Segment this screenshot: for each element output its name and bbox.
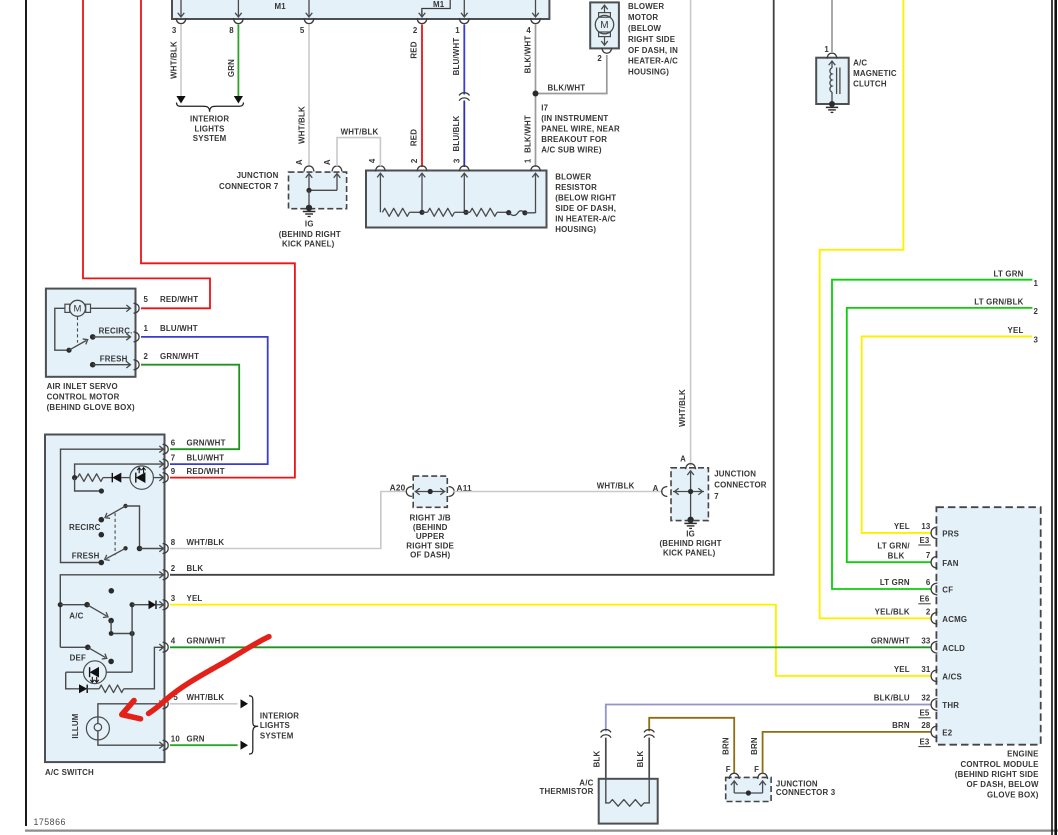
servo wire motor to common (55, 308, 69, 350)
svg-text:A/C SUB WIRE): A/C SUB WIRE) (541, 145, 602, 154)
M1 pin 4 terminal (531, 18, 541, 24)
svg-text:CONNECTOR 7: CONNECTOR 7 (219, 182, 279, 191)
diode D pin3 (149, 600, 157, 609)
svg-text:KICK PANEL): KICK PANEL) (282, 239, 335, 248)
M1 pin 2 terminal (417, 18, 427, 24)
svg-text:CLUTCH: CLUTCH (853, 80, 887, 89)
ground IG upper dot (306, 205, 312, 211)
svg-text:6: 6 (171, 439, 176, 448)
servo motor brush left (65, 304, 70, 312)
clutch ground (826, 106, 838, 108)
svg-text:28: 28 (921, 721, 931, 730)
svg-text:10: 10 (171, 735, 181, 744)
svg-text:CF: CF (942, 586, 953, 595)
svg-text:32: 32 (921, 694, 931, 703)
svg-text:RECIRC: RECIRC (69, 523, 101, 532)
servo pin 5 terminal (134, 303, 140, 313)
wire YEL to ECM PRS (862, 337, 1033, 533)
servo switch arm (69, 341, 86, 351)
svg-text:E2: E2 (942, 729, 952, 738)
right J/B terminal A20 (406, 487, 412, 497)
svg-text:CONNECTOR: CONNECTOR (714, 481, 767, 490)
svg-text:GRN/WHT: GRN/WHT (187, 637, 226, 646)
A/C switch pin 2 arrow (159, 572, 163, 579)
A/C magnetic clutch box (816, 58, 849, 104)
svg-text:E3: E3 (919, 737, 929, 746)
svg-text:F: F (754, 765, 759, 774)
svg-text:IG: IG (305, 220, 314, 229)
servo common pivot dot (66, 348, 71, 353)
svg-text:(BEHIND RIGHT: (BEHIND RIGHT (279, 230, 341, 239)
wire YEL/BLK feed to ECM ACMG (820, 0, 932, 618)
svg-text:BLK: BLK (593, 750, 602, 767)
JC7 upper pin A right arrow (334, 174, 341, 178)
ECM pin 33 ACLD terminal (931, 641, 937, 653)
svg-text:THERMISTOR: THERMISTOR (539, 787, 593, 796)
blower resistor pin 4 terminal (375, 166, 385, 172)
svg-text:UPPER: UPPER (416, 532, 445, 541)
svg-text:GRN/WHT: GRN/WHT (160, 352, 199, 361)
ac contact link (111, 621, 132, 634)
splice thermistor right (644, 730, 654, 733)
svg-text:JUNCTION: JUNCTION (714, 470, 756, 479)
illum lamp wire pin5 (98, 704, 163, 724)
svg-text:2: 2 (144, 352, 149, 361)
svg-text:2: 2 (410, 158, 419, 163)
svg-text:31: 31 (921, 665, 931, 674)
node lamp feed dot (72, 475, 77, 480)
right J/B terminal A11 (449, 487, 455, 497)
svg-text:LT GRN: LT GRN (994, 269, 1024, 278)
right J/B internal bus (415, 491, 446, 493)
svg-text:E5: E5 (919, 709, 929, 718)
A/C switch pin 4 arrow (159, 644, 163, 651)
svg-text:OF DASH): OF DASH) (410, 551, 450, 560)
svg-text:BLK/WHT: BLK/WHT (523, 115, 532, 153)
svg-text:HOUSING): HOUSING) (628, 68, 669, 77)
svg-text:OF DASH, BELOW: OF DASH, BELOW (967, 780, 1039, 789)
svg-text:JUNCTION: JUNCTION (237, 171, 279, 180)
LED pin9 light arrows (138, 468, 140, 473)
svg-text:BLOWER: BLOWER (628, 2, 664, 11)
wire WHT/BLK pin8 to A20 (170, 492, 407, 549)
svg-text:7: 7 (171, 453, 176, 462)
svg-text:2: 2 (171, 564, 176, 573)
svg-text:ILLUM: ILLUM (71, 713, 80, 738)
svg-text:IG: IG (686, 529, 695, 538)
wire BLU/WHT servo 1 to A/C switch 7 (141, 337, 268, 464)
svg-text:BLU/BLK: BLU/BLK (452, 115, 461, 151)
svg-text:5: 5 (144, 295, 149, 304)
wire GRN pin10 to interior lights (170, 744, 238, 746)
svg-text:BRN: BRN (722, 737, 731, 755)
svg-text:SYSTEM: SYSTEM (260, 732, 294, 741)
svg-text:RIGHT SIDE: RIGHT SIDE (628, 35, 675, 44)
svg-text:(BEHIND: (BEHIND (413, 523, 448, 532)
def switch arm (88, 647, 106, 657)
svg-text:A/C: A/C (853, 59, 867, 68)
node I7 junction dot (533, 91, 539, 97)
svg-text:BLK/WHT: BLK/WHT (548, 83, 586, 92)
svg-text:2: 2 (597, 54, 602, 63)
thermal fuse dot right (522, 210, 527, 215)
servo motor brush right (86, 304, 91, 312)
svg-text:BRN: BRN (750, 737, 759, 755)
wire YEL pin3 to ECM A/CS (170, 605, 932, 676)
svg-text:(BELOW RIGHT: (BELOW RIGHT (555, 193, 616, 202)
wire GRN M1-8 to interior lights (237, 25, 239, 97)
A/C switch pin 10 arrow (159, 742, 163, 749)
wire BLK thermistor right (648, 738, 650, 779)
svg-text:LT GRN/: LT GRN/ (877, 542, 910, 551)
wire BRN thermistor to JC3 F (649, 718, 734, 774)
servo pin 1 arrow (126, 334, 130, 341)
svg-text:BLOWER: BLOWER (555, 172, 591, 181)
svg-text:CONTROL MOTOR: CONTROL MOTOR (47, 392, 120, 401)
recirc switch pivot (123, 504, 127, 508)
svg-text:LIGHTS: LIGHTS (195, 124, 225, 133)
wire WHT/BLK A11 to JC7 (453, 491, 663, 493)
wire LT GRN/BLK to ECM FAN (847, 308, 1033, 562)
svg-text:HOUSING): HOUSING) (555, 225, 596, 234)
svg-text:RED: RED (410, 129, 419, 146)
ac off contact dot (109, 588, 115, 594)
A/C switch pin 9 arrow (159, 474, 163, 481)
svg-text:4: 4 (171, 637, 176, 646)
thermal fuse dot left (506, 210, 511, 215)
wire BLU/BLK to blower resistor 3 (463, 101, 465, 168)
wire BRN JC3 to ECM E2 (763, 732, 932, 773)
A/C switch pin 8 terminal (163, 544, 169, 554)
svg-text:(BEHIND RIGHT: (BEHIND RIGHT (659, 539, 721, 548)
svg-text:M1: M1 (275, 2, 287, 11)
svg-text:BLK/BLU: BLK/BLU (874, 694, 910, 703)
svg-text:BREAKOUT FOR: BREAKOUT FOR (541, 135, 607, 144)
blower resistor pin 2 arrow (419, 173, 426, 177)
blower resistor pin 1 arrow (532, 173, 539, 177)
svg-text:1: 1 (455, 26, 460, 35)
wire WHT/BLK M1-3 to interior lights (180, 25, 182, 97)
svg-text:GLOVE BOX): GLOVE BOX) (987, 790, 1039, 799)
svg-text:A: A (653, 484, 659, 493)
wire def loop to pin4 (124, 647, 163, 689)
brace interior lights system bottom (249, 696, 258, 754)
svg-text:BLK: BLK (636, 750, 645, 767)
svg-text:LT GRN: LT GRN (880, 578, 910, 587)
JC7 right pin A terminal (662, 487, 668, 497)
wire to pin 8 (140, 548, 163, 550)
annotation red arrow (149, 637, 270, 714)
recirc switch arm (107, 506, 126, 517)
ac switch feed (60, 604, 87, 606)
svg-text:HEATER-A/C: HEATER-A/C (628, 57, 678, 66)
wire WHT/BLK M1-5 to junction connector 7 (308, 25, 310, 167)
splice thermistor left (601, 730, 611, 733)
svg-text:AIR INLET SERVO: AIR INLET SERVO (47, 382, 118, 391)
blower motor brush bottom (599, 32, 611, 37)
svg-text:5: 5 (300, 26, 305, 35)
JC3 pin F right arrow (759, 781, 766, 785)
junction connector 7 right box (671, 468, 708, 521)
svg-text:LT GRN/BLK: LT GRN/BLK (974, 298, 1023, 307)
servo mechanical link dashed (77, 317, 79, 343)
ECM pin 28 E2 terminal (931, 726, 937, 738)
wire BLK thermistor left (605, 738, 607, 779)
wire BLK/WHT blower motor to node I7 (539, 55, 607, 94)
svg-text:YEL: YEL (894, 665, 910, 674)
svg-text:RIGHT SIDE: RIGHT SIDE (406, 541, 454, 550)
off contact dot recirc (99, 532, 105, 538)
svg-text:(BELOW: (BELOW (628, 24, 662, 33)
svg-text:WHT/BLK: WHT/BLK (597, 482, 635, 491)
svg-text:A/CS: A/CS (942, 673, 962, 682)
JC3 internal bus (734, 792, 762, 794)
servo pin 2 terminal (134, 360, 140, 370)
svg-text:3: 3 (171, 594, 176, 603)
wire GRN/WHT servo 2 to A/C switch 6 (141, 365, 239, 450)
clutch ground dot (829, 101, 835, 107)
svg-text:9: 9 (171, 467, 176, 476)
blower motor arrow down (604, 36, 606, 44)
svg-text:CONTROL MODULE: CONTROL MODULE (961, 760, 1039, 769)
wire BLK/BLU thermistor to ECM THR (606, 705, 932, 732)
def switch feed (60, 646, 88, 648)
junction block M1 (172, 0, 549, 19)
wire to diode pin3 (132, 604, 148, 606)
ac contact dot (108, 618, 114, 624)
clutch coil L1 (830, 68, 832, 92)
svg-text:A: A (680, 455, 686, 464)
svg-text:7: 7 (714, 492, 719, 501)
svg-text:RED: RED (410, 41, 419, 58)
svg-text:A: A (323, 159, 332, 165)
ECM pin 7 FAN terminal (931, 556, 937, 568)
A/C switch pin 7 arrow (159, 461, 163, 468)
A/C switch pin 5 arrow (159, 701, 163, 708)
svg-text:RECIRC.: RECIRC. (99, 327, 133, 336)
clutch arrow up (831, 62, 833, 68)
ground IG right (684, 522, 696, 524)
servo RECIRC contact (90, 334, 96, 340)
def switch pivot (85, 645, 91, 651)
svg-text:8: 8 (171, 538, 176, 547)
servo pin 2 arrow (126, 361, 130, 368)
svg-text:7: 7 (926, 551, 931, 560)
svg-text:M: M (600, 20, 609, 31)
blower resistor pin 3 terminal (459, 166, 469, 172)
svg-text:3: 3 (172, 26, 177, 35)
svg-text:FAN: FAN (942, 559, 958, 568)
M1 pin 5 arrow (308, 0, 310, 17)
svg-text:THR: THR (942, 701, 959, 710)
blower motor armature M (595, 15, 613, 33)
ground IG upper (303, 211, 316, 213)
svg-text:2: 2 (926, 607, 931, 616)
blower resistor pin 4 arrow (377, 173, 384, 177)
svg-text:RESISTOR: RESISTOR (555, 183, 597, 192)
svg-text:M: M (73, 304, 81, 315)
svg-text:175866: 175866 (34, 817, 66, 827)
M1 pin 1 terminal (459, 18, 469, 24)
junction connector 3 box (726, 777, 771, 801)
thermistor element (606, 779, 610, 803)
servo pin 5 arrow (126, 305, 130, 312)
svg-text:YEL: YEL (1008, 326, 1024, 335)
A/C switch pin 3 arrow (159, 601, 163, 608)
blower resistor element R2 (422, 211, 428, 213)
svg-text:IN HEATER-A/C: IN HEATER-A/C (555, 214, 616, 223)
servo pin 1 terminal (134, 332, 140, 342)
wire BLU/WHT M1-1 upper (463, 25, 465, 95)
blower motor arrow up (604, 6, 606, 13)
A/C switch pin 6 terminal (163, 444, 169, 454)
A/C switch pin 2 terminal (163, 570, 169, 580)
svg-text:E6: E6 (919, 595, 929, 604)
JC7 upper ground lead (308, 190, 310, 208)
connector M1 label leader (422, 0, 450, 17)
M1 pin 2 arrow (421, 11, 423, 17)
servo FRESH contact (90, 362, 96, 368)
svg-text:F: F (726, 765, 731, 774)
JC7 upper pin A left arrow (306, 174, 313, 178)
JC7 upper internal bus (309, 189, 337, 191)
JC3 pin F left terminal (729, 773, 739, 779)
svg-text:BLU/WHT: BLU/WHT (452, 38, 461, 76)
fresh contact dot (99, 560, 105, 566)
resistor R lamp (78, 474, 104, 482)
svg-text:BLU/WHT: BLU/WHT (160, 324, 198, 333)
svg-text:RED/WHT: RED/WHT (160, 295, 198, 304)
svg-text:INTERIOR: INTERIOR (190, 115, 229, 124)
wire RED M1-2 to blower resistor 2 (421, 25, 423, 168)
blower resistor box (366, 171, 547, 228)
svg-text:CONNECTOR 3: CONNECTOR 3 (776, 788, 836, 797)
svg-text:DEF: DEF (70, 653, 86, 662)
blower motor pin 2 terminal (602, 48, 612, 54)
node pin8 junction (137, 546, 143, 552)
svg-text:RED/WHT: RED/WHT (187, 467, 225, 476)
JC7 right internal cross (690, 471, 692, 520)
svg-text:GRN: GRN (227, 59, 236, 77)
svg-text:WHT/BLK: WHT/BLK (187, 693, 225, 702)
svg-text:1: 1 (523, 158, 532, 163)
svg-text:6: 6 (926, 578, 931, 587)
wire RED/WHT feed to A/C switch pin 9 (141, 0, 295, 478)
svg-text:BLK: BLK (187, 564, 204, 573)
svg-text:3: 3 (452, 158, 461, 163)
svg-text:YEL: YEL (894, 522, 910, 531)
svg-text:2: 2 (1034, 307, 1039, 316)
A/C switch pin 3 terminal (163, 600, 169, 610)
blower motor M1 box (590, 2, 619, 48)
svg-text:SYSTEM: SYSTEM (193, 134, 227, 143)
def lamp loop (66, 672, 71, 689)
ground IG right dot (687, 517, 693, 523)
svg-text:KICK PANEL): KICK PANEL) (663, 549, 716, 558)
A/C switch wire pin6 to FRESH contact (61, 449, 163, 562)
svg-text:A: A (295, 159, 304, 165)
ac switch pivot (84, 602, 90, 608)
A/C switch wire pin7 to lamp circuit (75, 464, 163, 478)
A/C thermistor box (599, 779, 658, 824)
wire WHT/BLK pin5 to interior lights (170, 703, 238, 705)
JC7 upper pin A right terminal (332, 166, 342, 172)
mechanical link recirc-fresh (114, 513, 116, 555)
fresh switch arm (106, 548, 125, 558)
ECM pin 2 ACMG terminal (931, 612, 937, 624)
wire WHT/BLK feed from top (690, 0, 692, 466)
svg-text:A/C: A/C (579, 778, 593, 787)
svg-text:BRN: BRN (892, 721, 910, 730)
svg-text:I7: I7 (541, 103, 548, 112)
blower motor brush top (599, 13, 611, 18)
A/C switch pin 5 terminal (163, 699, 169, 709)
wire RED/WHT feed to servo pin 5 (83, 0, 210, 308)
svg-text:1: 1 (824, 45, 829, 54)
wire WHT/BLK JC7 to blower resistor 4 (337, 138, 380, 167)
A/C switch pin 8 arrow (159, 545, 163, 552)
wire BLK pin2 (170, 0, 774, 575)
resistor R def (99, 685, 124, 693)
A/C switch pin 7 terminal (163, 459, 169, 469)
air inlet servo control motor box (46, 289, 136, 377)
wire pin2 feed (60, 575, 162, 648)
A/C switch pin 4 terminal (163, 642, 169, 652)
svg-text:OF DASH, IN: OF DASH, IN (628, 46, 678, 55)
diode D lamp (103, 477, 112, 479)
svg-text:RIGHT J/B: RIGHT J/B (410, 514, 451, 523)
servo motor M circle (70, 300, 86, 316)
svg-text:WHT/BLK: WHT/BLK (170, 41, 179, 79)
wire feed to A/C magnetic clutch (831, 0, 833, 52)
LED illumination pin9 (130, 466, 153, 489)
node ac feed dot (58, 602, 63, 607)
svg-text:4: 4 (368, 158, 377, 163)
A/C switch pin 6 arrow (159, 446, 163, 453)
svg-text:FRESH: FRESH (100, 355, 128, 364)
wire to resistor pin1 (525, 212, 536, 214)
svg-text:MAGNETIC: MAGNETIC (853, 69, 897, 78)
svg-text:YEL/BLK: YEL/BLK (875, 607, 910, 616)
LED def light arrows (91, 677, 93, 682)
svg-text:WHT/BLK: WHT/BLK (678, 389, 687, 427)
blower resistor pin 1 terminal (531, 166, 541, 172)
illumination lamp (86, 717, 109, 740)
svg-text:BLU/WHT: BLU/WHT (187, 453, 225, 462)
svg-text:4: 4 (526, 26, 531, 35)
svg-text:M1: M1 (433, 0, 445, 9)
page border right inner (1051, 0, 1053, 835)
blower resistor element R3 (464, 211, 470, 213)
blower resistor pin 3 arrow (461, 173, 468, 177)
M1 pin 3 terminal (176, 18, 186, 24)
splice I8 on blue wire (459, 93, 469, 96)
M1 pin 4 arrow (535, 0, 537, 17)
svg-text:BLK: BLK (888, 552, 905, 561)
svg-text:8: 8 (229, 26, 234, 35)
svg-text:BLK/WHT: BLK/WHT (523, 36, 532, 74)
junction dot resistor pin3 (463, 210, 468, 215)
brace interior lights system top (177, 103, 244, 112)
M1 pin 3 arrow (180, 0, 182, 17)
def contact dot (108, 659, 114, 665)
servo wire motor to pin 5 (91, 307, 130, 309)
illum lamp wire pin10 (98, 731, 163, 745)
svg-text:ACMG: ACMG (942, 615, 967, 624)
svg-text:MOTOR: MOTOR (628, 13, 658, 22)
junction dot resistor pin2 (419, 210, 424, 215)
JC7 upper pin A left terminal (304, 166, 314, 172)
